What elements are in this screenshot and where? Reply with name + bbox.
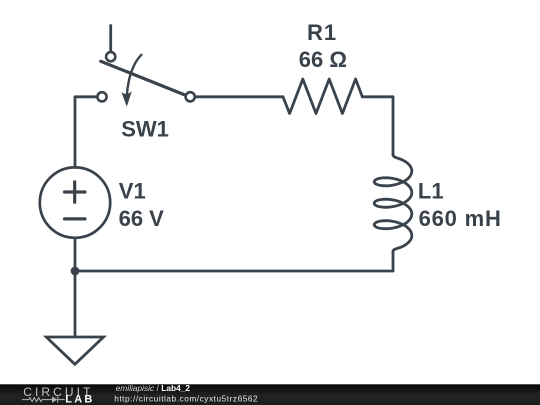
svg-text:LAB: LAB xyxy=(65,394,94,405)
wire: L1 to bottom rail xyxy=(392,251,395,271)
wire: top stub above SW1 xyxy=(109,26,112,52)
svg-text:66 Ω: 66 Ω xyxy=(299,47,347,72)
resistor R1 xyxy=(283,79,362,114)
wire: SW1 left terminal to V1 top xyxy=(75,97,97,168)
wire: bottom rail xyxy=(75,270,393,273)
svg-text:V1: V1 xyxy=(119,179,146,204)
inductor L1 xyxy=(374,155,412,252)
wire: SW1 right terminal to R1 xyxy=(196,95,284,98)
svg-text:SW1: SW1 xyxy=(121,117,169,142)
CircuitLab logo resistor-diode glyph xyxy=(22,397,65,403)
svg-text:660 mH: 660 mH xyxy=(419,206,502,231)
svg-text:R1: R1 xyxy=(307,20,337,45)
wire: R1 to L1 corner xyxy=(362,97,393,155)
svg-text:http://circuitlab.com/cyxtu5tr: http://circuitlab.com/cyxtu5trz6562 xyxy=(114,393,258,403)
voltage source V1 xyxy=(40,167,110,237)
svg-text:66 V: 66 V xyxy=(119,206,165,231)
footer bar xyxy=(0,384,540,405)
switch SW1 xyxy=(97,52,194,107)
node: junction V1 / ground / bottom rail xyxy=(71,267,80,276)
ground xyxy=(46,337,103,364)
wire: V1 bottom to ground xyxy=(74,238,77,337)
svg-text:emiliapisic / Lab4_2: emiliapisic / Lab4_2 xyxy=(116,383,191,393)
svg-text:L1: L1 xyxy=(418,179,444,204)
